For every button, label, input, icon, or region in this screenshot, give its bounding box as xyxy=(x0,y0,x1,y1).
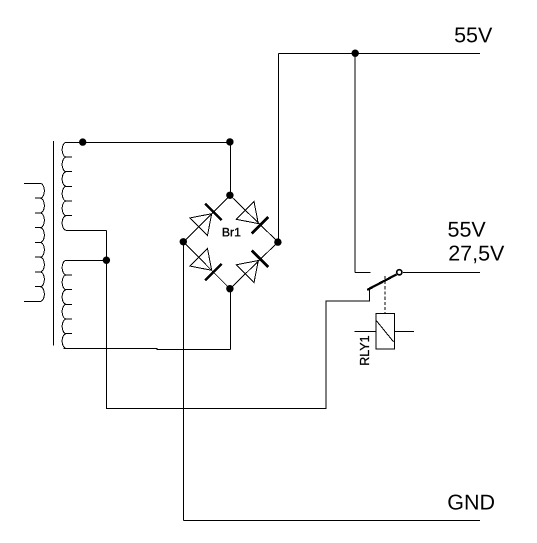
svg-text:27,5V: 27,5V xyxy=(448,242,505,266)
svg-text:55V: 55V xyxy=(454,23,493,47)
svg-text:55V: 55V xyxy=(447,218,486,242)
svg-text:RLY1: RLY1 xyxy=(358,335,372,365)
svg-text:GND: GND xyxy=(447,491,495,515)
svg-text:Br1: Br1 xyxy=(222,225,241,239)
